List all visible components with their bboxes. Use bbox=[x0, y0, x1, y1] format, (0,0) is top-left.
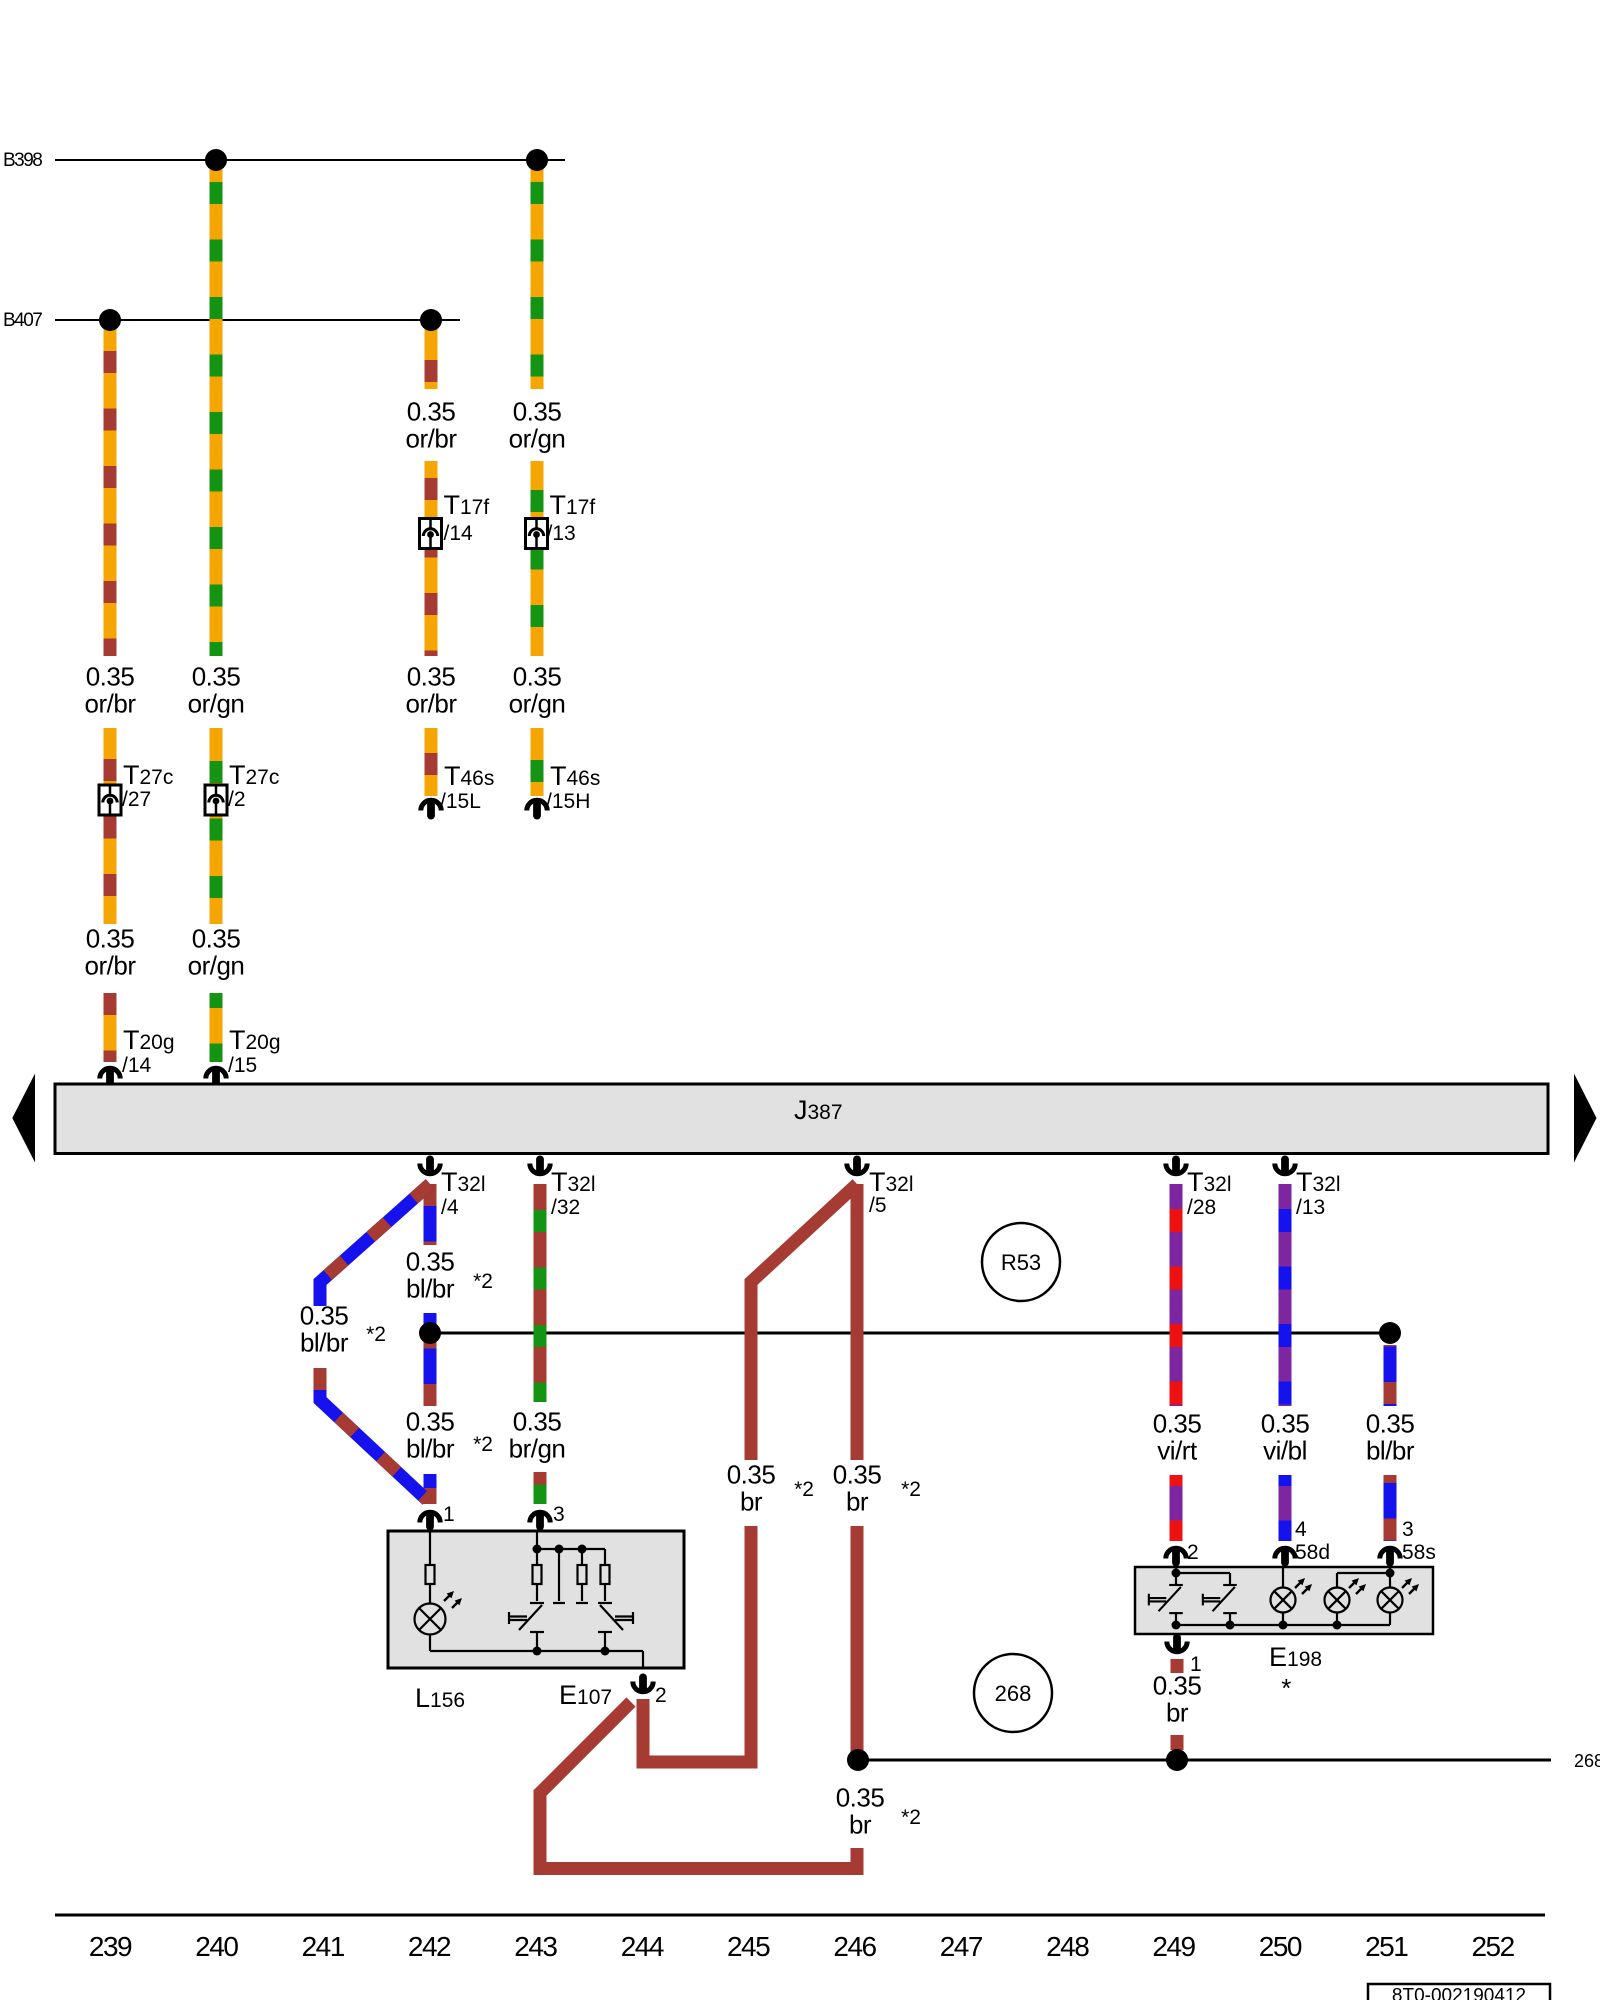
svg-text:242: 242 bbox=[408, 1931, 451, 1962]
svg-text:0.35: 0.35 bbox=[406, 1407, 455, 1437]
svg-text:0.35: 0.35 bbox=[192, 662, 241, 692]
svg-text:or/br: or/br bbox=[406, 424, 458, 454]
svg-text:or/gn: or/gn bbox=[188, 689, 245, 719]
svg-text:239: 239 bbox=[89, 1931, 132, 1962]
svg-text:0.35: 0.35 bbox=[1366, 1409, 1415, 1439]
svg-text:B398: B398 bbox=[3, 150, 42, 171]
svg-text:*: * bbox=[1281, 1673, 1291, 1703]
svg-text:0.35: 0.35 bbox=[1261, 1409, 1310, 1439]
svg-text:1: 1 bbox=[1190, 1653, 1202, 1676]
svg-text:0.35: 0.35 bbox=[86, 662, 135, 692]
svg-text:T17f: T17f bbox=[550, 490, 596, 520]
svg-text:*2: *2 bbox=[901, 1806, 921, 1829]
svg-text:2: 2 bbox=[655, 1684, 667, 1707]
svg-text:247: 247 bbox=[940, 1931, 983, 1962]
svg-text:T17f: T17f bbox=[444, 490, 490, 520]
svg-text:T46s: T46s bbox=[550, 761, 600, 791]
svg-text:244: 244 bbox=[621, 1931, 664, 1962]
svg-text:0.35: 0.35 bbox=[300, 1301, 349, 1331]
svg-text:vi/bl: vi/bl bbox=[1263, 1436, 1307, 1466]
svg-text:or/br: or/br bbox=[85, 689, 137, 719]
svg-text:0.35: 0.35 bbox=[727, 1460, 776, 1490]
svg-text:or/br: or/br bbox=[406, 689, 458, 719]
svg-text:br: br bbox=[1166, 1698, 1189, 1728]
svg-text:240: 240 bbox=[195, 1931, 238, 1962]
svg-text:/5: /5 bbox=[869, 1194, 887, 1217]
svg-text:/15: /15 bbox=[228, 1054, 257, 1077]
svg-text:3: 3 bbox=[1402, 1518, 1414, 1541]
svg-text:268: 268 bbox=[995, 1681, 1032, 1706]
svg-text:250: 250 bbox=[1259, 1931, 1302, 1962]
svg-text:L156: L156 bbox=[415, 1683, 465, 1713]
svg-text:8T0-002190412: 8T0-002190412 bbox=[1392, 1986, 1526, 2000]
svg-text:252: 252 bbox=[1471, 1931, 1514, 1962]
svg-text:3: 3 bbox=[553, 1503, 565, 1526]
svg-text:/28: /28 bbox=[1187, 1196, 1216, 1219]
svg-text:T27c: T27c bbox=[123, 760, 173, 790]
svg-text:E198: E198 bbox=[1269, 1642, 1322, 1672]
svg-text:0.35: 0.35 bbox=[192, 924, 241, 954]
svg-text:or/gn: or/gn bbox=[188, 951, 245, 981]
svg-text:0.35: 0.35 bbox=[407, 662, 456, 692]
svg-text:bl/br: bl/br bbox=[406, 1434, 455, 1464]
svg-text:245: 245 bbox=[727, 1931, 770, 1962]
svg-text:246: 246 bbox=[833, 1931, 876, 1962]
svg-text:2: 2 bbox=[1187, 1541, 1199, 1564]
svg-text:0.35: 0.35 bbox=[836, 1783, 885, 1813]
svg-text:249: 249 bbox=[1152, 1931, 1195, 1962]
svg-text:E107: E107 bbox=[559, 1680, 612, 1710]
svg-text:0.35: 0.35 bbox=[513, 662, 562, 692]
svg-text:/4: /4 bbox=[441, 1196, 459, 1219]
svg-text:vi/rt: vi/rt bbox=[1157, 1436, 1198, 1466]
svg-text:T27c: T27c bbox=[229, 760, 279, 790]
svg-text:0.35: 0.35 bbox=[833, 1460, 882, 1490]
svg-text:1: 1 bbox=[443, 1503, 455, 1526]
svg-text:/15L: /15L bbox=[440, 790, 481, 813]
svg-text:T46s: T46s bbox=[444, 761, 494, 791]
svg-text:br: br bbox=[846, 1487, 869, 1517]
svg-text:br: br bbox=[849, 1810, 872, 1840]
svg-text:T32l: T32l bbox=[441, 1167, 486, 1197]
svg-text:T32l: T32l bbox=[551, 1167, 596, 1197]
svg-text:*2: *2 bbox=[473, 1433, 493, 1456]
svg-text:/13: /13 bbox=[1296, 1196, 1325, 1219]
svg-text:br/gn: br/gn bbox=[509, 1434, 566, 1464]
svg-text:0.35: 0.35 bbox=[86, 924, 135, 954]
svg-text:0.35: 0.35 bbox=[407, 397, 456, 427]
svg-text:T20g: T20g bbox=[229, 1025, 281, 1055]
svg-text:248: 248 bbox=[1046, 1931, 1089, 1962]
svg-text:*2: *2 bbox=[901, 1478, 921, 1501]
svg-text:58d: 58d bbox=[1295, 1541, 1330, 1564]
svg-text:/15H: /15H bbox=[546, 790, 590, 813]
svg-text:4: 4 bbox=[1295, 1518, 1307, 1541]
svg-text:B407: B407 bbox=[3, 310, 42, 331]
svg-text:241: 241 bbox=[302, 1931, 345, 1962]
svg-text:br: br bbox=[740, 1487, 763, 1517]
svg-text:or/gn: or/gn bbox=[509, 424, 566, 454]
svg-text:or/br: or/br bbox=[85, 951, 137, 981]
svg-text:/14: /14 bbox=[444, 522, 474, 545]
svg-text:bl/br: bl/br bbox=[1366, 1436, 1415, 1466]
svg-text:/32: /32 bbox=[551, 1196, 580, 1219]
svg-text:0.35: 0.35 bbox=[1153, 1409, 1202, 1439]
svg-text:251: 251 bbox=[1365, 1931, 1408, 1962]
svg-text:T32l: T32l bbox=[869, 1167, 914, 1197]
svg-text:/2: /2 bbox=[228, 788, 246, 811]
svg-text:0.35: 0.35 bbox=[406, 1247, 455, 1277]
svg-text:243: 243 bbox=[514, 1931, 557, 1962]
svg-text:T20g: T20g bbox=[123, 1025, 175, 1055]
svg-text:T32l: T32l bbox=[1187, 1167, 1232, 1197]
svg-text:/27: /27 bbox=[122, 788, 151, 811]
svg-text:0.35: 0.35 bbox=[513, 397, 562, 427]
svg-text:*2: *2 bbox=[794, 1478, 814, 1501]
svg-text:/13: /13 bbox=[547, 522, 576, 545]
svg-text:*2: *2 bbox=[366, 1323, 386, 1346]
svg-text:0.35: 0.35 bbox=[513, 1407, 562, 1437]
svg-text:58s: 58s bbox=[1402, 1541, 1436, 1564]
svg-text:*2: *2 bbox=[473, 1270, 493, 1293]
svg-text:bl/br: bl/br bbox=[300, 1328, 349, 1358]
svg-text:/14: /14 bbox=[122, 1054, 152, 1077]
svg-text:bl/br: bl/br bbox=[406, 1274, 455, 1304]
svg-text:T32l: T32l bbox=[1296, 1167, 1341, 1197]
svg-text:R53: R53 bbox=[1001, 1250, 1041, 1275]
svg-text:or/gn: or/gn bbox=[509, 689, 566, 719]
svg-text:268: 268 bbox=[1574, 1751, 1600, 1771]
